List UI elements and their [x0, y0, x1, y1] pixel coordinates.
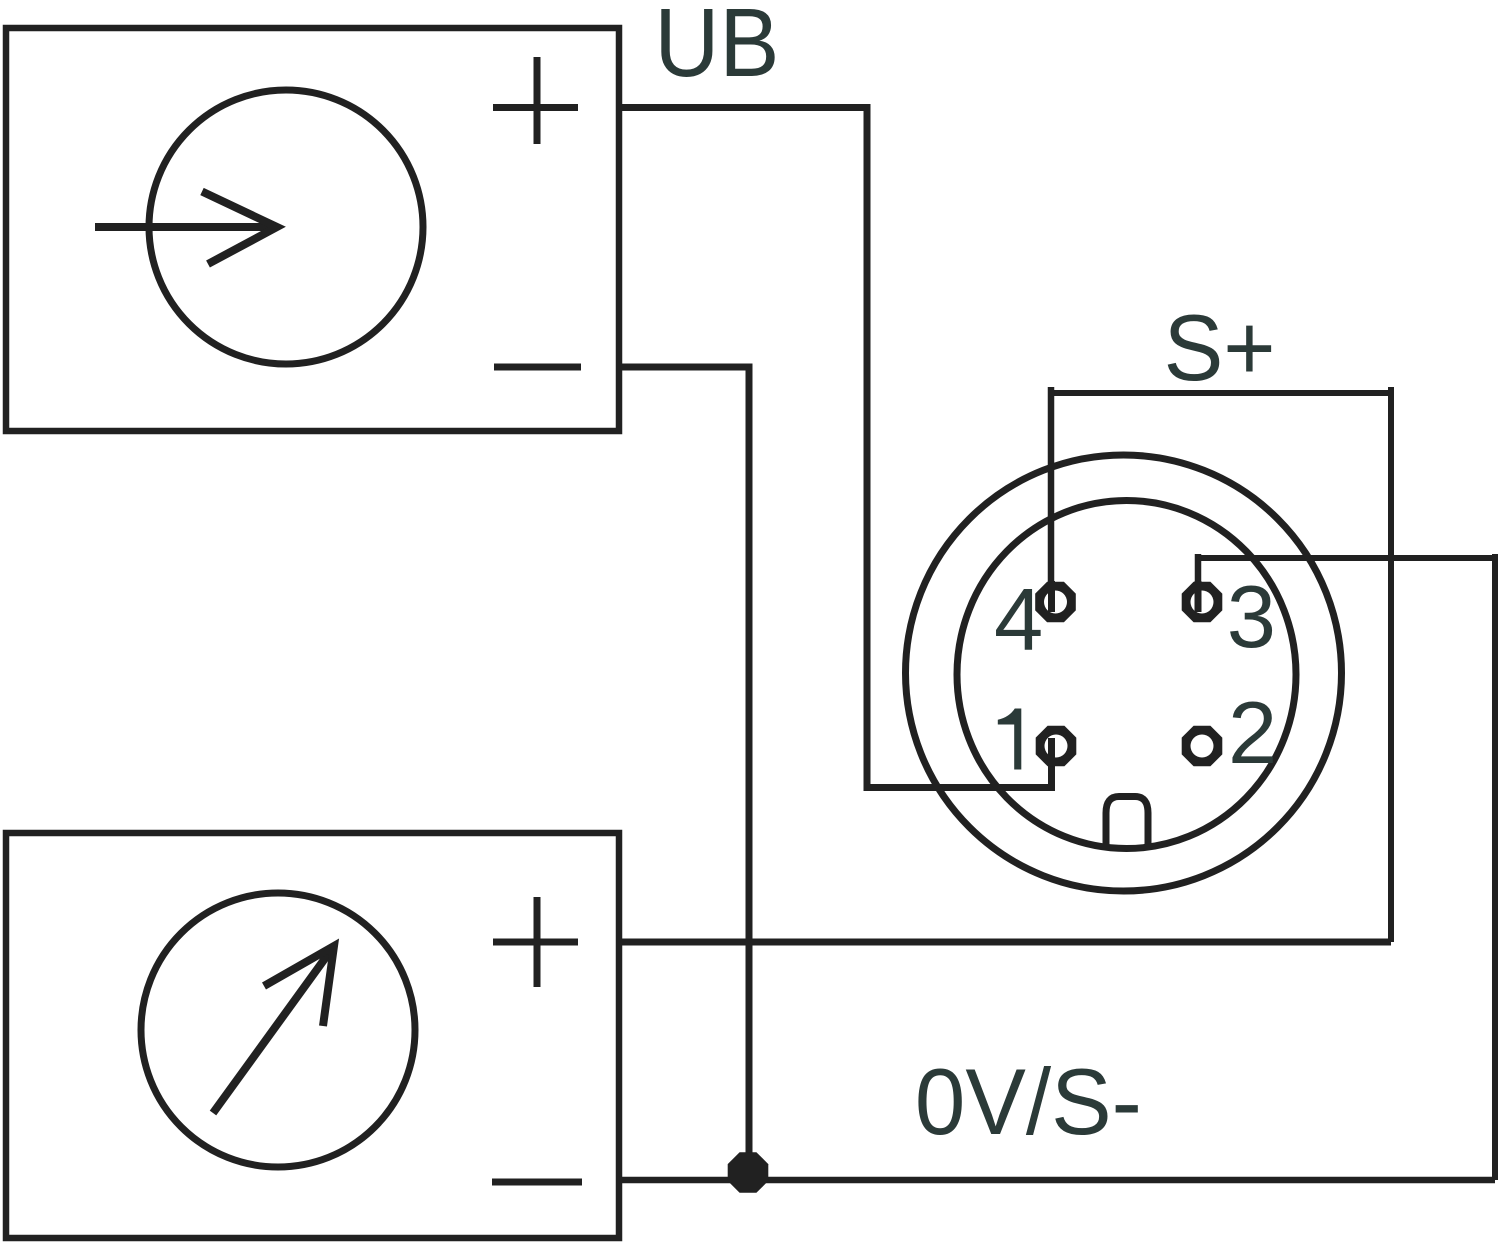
svg-text:0V/S-: 0V/S-	[915, 1049, 1142, 1154]
svg-text:UB: UB	[654, 0, 779, 97]
svg-text:3: 3	[1227, 567, 1276, 666]
svg-text:2: 2	[1228, 683, 1277, 782]
svg-text:S+: S+	[1164, 295, 1276, 400]
svg-text:4: 4	[994, 570, 1043, 669]
